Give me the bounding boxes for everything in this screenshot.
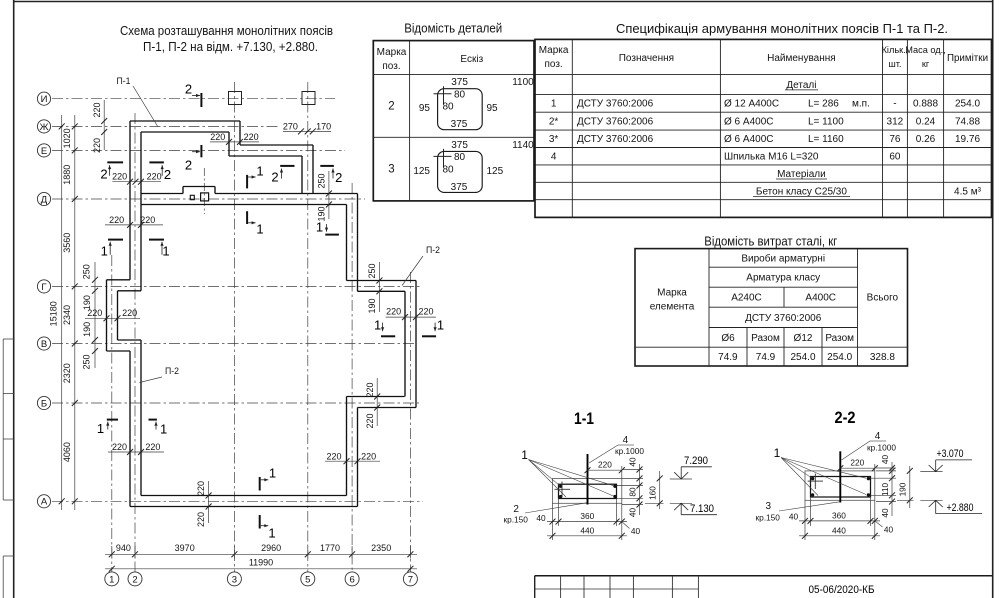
specification row 3* xyxy=(549,134,981,145)
section 1-1 cross mark xyxy=(555,482,571,498)
axis bubble 2 xyxy=(128,572,142,586)
belt П-2 band row А bottom line xyxy=(130,506,358,508)
svg-text:940: 940 xyxy=(116,543,131,553)
svg-text:1100: 1100 xyxy=(512,77,534,88)
svg-text:40: 40 xyxy=(627,457,637,467)
svg-text:1: 1 xyxy=(109,574,114,585)
svg-text:1: 1 xyxy=(256,164,263,179)
svg-text:05-06/2020-КБ: 05-06/2020-КБ xyxy=(809,584,875,596)
wall axis 1 outer line xyxy=(106,280,108,351)
svg-text:4.5 м³: 4.5 м³ xyxy=(954,186,982,197)
svg-text:ДСТУ 3760:2006: ДСТУ 3760:2006 xyxy=(577,99,654,110)
svg-text:5: 5 xyxy=(305,574,310,585)
svg-text:Всього: Всього xyxy=(867,293,899,304)
svg-text:190: 190 xyxy=(82,322,92,337)
svg-text:Ø12: Ø12 xyxy=(794,333,813,344)
belt band row В step bottom line xyxy=(107,350,131,352)
svg-text:220: 220 xyxy=(365,413,375,428)
svg-text:Маса од.,: Маса од., xyxy=(905,45,946,55)
svg-text:250: 250 xyxy=(82,354,92,369)
svg-text:4: 4 xyxy=(623,435,629,446)
svg-text:П-1: П-1 xyxy=(117,76,131,86)
svg-text:190: 190 xyxy=(367,298,377,313)
section mark 1 at cut x247 lower xyxy=(247,211,264,236)
svg-text:2350: 2350 xyxy=(371,543,391,553)
svg-text:6: 6 xyxy=(349,574,354,585)
svg-text:7.290: 7.290 xyxy=(684,455,708,467)
svg-text:+2.880: +2.880 xyxy=(947,502,974,514)
axis line 7 vertical dash-dot xyxy=(409,272,411,572)
small anchor square in opening on row Д xyxy=(190,195,194,199)
svg-text:0.888: 0.888 xyxy=(913,99,938,110)
svg-text:170: 170 xyxy=(316,121,331,131)
dim 220 220 on axis 2 wall below Д xyxy=(105,215,163,228)
svg-text:4: 4 xyxy=(551,152,557,163)
svg-text:250: 250 xyxy=(316,173,326,188)
specification row 1 xyxy=(551,99,981,110)
specification table grid xyxy=(535,39,992,217)
svg-text:Кільк.,: Кільк., xyxy=(882,45,909,55)
svg-text:кр.1000: кр.1000 xyxy=(867,443,896,453)
svg-text:м.п.: м.п. xyxy=(852,99,870,110)
section 1-1 stud M16 vertical bar xyxy=(587,454,589,505)
steel table grid xyxy=(635,249,908,366)
axis line 5 vertical dash-dot xyxy=(307,82,309,572)
svg-text:Г: Г xyxy=(41,282,46,293)
svg-text:250: 250 xyxy=(82,264,92,279)
svg-text:80: 80 xyxy=(442,164,454,175)
svg-text:15180: 15180 xyxy=(49,301,59,326)
section 1-1 right dim chain 40 80 40 xyxy=(617,457,643,517)
section 1-1 elevation 7.290 xyxy=(670,455,712,479)
belt band row Б step top line xyxy=(347,396,405,398)
wall step axis 3 left line xyxy=(228,132,230,156)
section 1-1 dim 220 top xyxy=(585,459,625,478)
details table row mark 3 xyxy=(388,164,394,176)
dimension chain left segments 1020 1880 3560 2340 2320 4060 xyxy=(62,115,78,510)
svg-text:L= 286: L= 286 xyxy=(808,99,839,110)
section mark 1 above row А band xyxy=(260,466,276,491)
svg-text:Специфікація армування моноліт: Специфікація армування монолітних поясів… xyxy=(616,21,948,36)
dim 220 220 on axis 1 wall xyxy=(85,308,140,321)
svg-text:Ескіз: Ескіз xyxy=(460,54,483,65)
dim 270 170 at axis 5 wall top xyxy=(283,121,331,134)
belt band row Г right step top line xyxy=(347,280,417,282)
svg-text:ДСТУ 3760:2006: ДСТУ 3760:2006 xyxy=(745,313,822,324)
svg-text:220: 220 xyxy=(122,308,137,318)
svg-text:220: 220 xyxy=(147,171,162,181)
svg-text:40: 40 xyxy=(627,508,637,518)
svg-text:поз.: поз. xyxy=(544,59,562,70)
details table sketch row 3 xyxy=(413,140,534,193)
svg-text:220: 220 xyxy=(361,451,376,461)
dim 250 190 vertical at row Д near axis 6 xyxy=(316,171,332,222)
svg-text:40: 40 xyxy=(880,508,890,518)
svg-text:7.130: 7.130 xyxy=(690,503,714,515)
belt band row Г right step bottom line xyxy=(358,290,406,292)
svg-text:А: А xyxy=(41,497,48,508)
dimension chain bottom total 11990 xyxy=(105,557,417,571)
dim 220 220 on axis 6 wall above row А xyxy=(325,451,380,464)
svg-text:1: 1 xyxy=(268,526,275,541)
svg-text:0.26: 0.26 xyxy=(916,134,936,145)
svg-text:поз.: поз. xyxy=(382,61,400,72)
belt band row Д bottom line xyxy=(141,204,347,206)
sheet frame left border xyxy=(13,0,15,598)
svg-text:2: 2 xyxy=(185,158,192,173)
svg-text:220: 220 xyxy=(210,132,225,142)
axis bubble Б xyxy=(37,396,50,409)
specification row Матеріали xyxy=(776,169,827,180)
svg-text:1: 1 xyxy=(162,244,169,259)
svg-text:375: 375 xyxy=(451,119,468,130)
svg-text:1: 1 xyxy=(551,99,557,110)
svg-text:74.9: 74.9 xyxy=(718,352,738,363)
axis line Е horizontal dash-dot xyxy=(52,149,345,151)
svg-text:80: 80 xyxy=(442,102,454,113)
axis line 1 vertical dash-dot xyxy=(111,255,113,572)
svg-text:220: 220 xyxy=(386,307,401,317)
svg-text:250: 250 xyxy=(367,263,377,278)
svg-text:Ø6: Ø6 xyxy=(721,333,735,344)
svg-text:L= 1160: L= 1160 xyxy=(808,134,844,145)
section 2-2 concrete outline xyxy=(805,471,875,500)
section 1-1 reinforcement frame xyxy=(559,484,617,498)
wall step axis 3 right line xyxy=(239,121,241,145)
section mark 1 pair left wall row between Д Г right xyxy=(149,240,170,259)
wall axis 2 outer line upper xyxy=(129,121,131,280)
details table header Ескіз xyxy=(460,54,483,65)
svg-text:74.88: 74.88 xyxy=(955,117,980,128)
left margin attribute boxes xyxy=(3,339,14,598)
svg-text:220: 220 xyxy=(112,442,127,452)
svg-text:440: 440 xyxy=(580,525,594,535)
svg-text:254.0: 254.0 xyxy=(955,99,980,110)
svg-text:2*: 2* xyxy=(549,117,559,128)
section mark 1 at cut x247 upper xyxy=(247,164,264,189)
section mark 2 right of axis 2 wall xyxy=(149,162,171,181)
svg-text:360: 360 xyxy=(832,510,846,520)
section mark 1 lower left wall right xyxy=(149,420,168,437)
svg-text:ДСТУ 3760:2006: ДСТУ 3760:2006 xyxy=(577,117,654,128)
title block stamp xyxy=(535,576,993,598)
section 1-1 bottom dims 40 360 440 xyxy=(536,499,640,541)
svg-text:-: - xyxy=(893,99,896,110)
leader label П-1 xyxy=(117,76,159,127)
svg-text:1: 1 xyxy=(256,222,263,237)
svg-text:П-1, П-2 на відм. +7.130, +2.8: П-1, П-2 на відм. +7.130, +2.880. xyxy=(143,39,318,54)
svg-text:1: 1 xyxy=(774,446,781,460)
belt band row Б step bottom line xyxy=(358,407,417,409)
axis bubble 6 xyxy=(345,572,359,586)
svg-text:Ø 12 А400С: Ø 12 А400С xyxy=(724,99,779,110)
svg-text:кр.1000: кр.1000 xyxy=(615,446,644,456)
svg-text:1-1: 1-1 xyxy=(574,410,594,428)
svg-text:1020: 1020 xyxy=(62,128,72,148)
svg-text:74.9: 74.9 xyxy=(756,352,776,363)
axis bubble В xyxy=(37,337,50,350)
svg-text:4: 4 xyxy=(875,431,881,442)
wall axis 5 right line xyxy=(312,145,314,194)
section 1-1 label 2 кр.150 xyxy=(503,503,586,525)
wall axis 5 left line xyxy=(301,156,303,194)
svg-text:+3.070: +3.070 xyxy=(937,448,964,460)
svg-text:1880: 1880 xyxy=(62,165,72,185)
svg-text:Е: Е xyxy=(41,146,47,157)
svg-text:Шпилька М16 L=320: Шпилька М16 L=320 xyxy=(724,152,819,163)
section mark 2 right of axis 5 wall xyxy=(320,166,342,185)
axis line Г horizontal dash-dot xyxy=(52,285,421,287)
axis bubble 3 xyxy=(227,572,241,586)
svg-text:Д: Д xyxy=(41,194,48,205)
details table row mark 2 xyxy=(388,101,394,113)
svg-text:L= 1100: L= 1100 xyxy=(808,117,844,128)
svg-text:190: 190 xyxy=(898,482,908,496)
svg-text:Схема розташування монолітних: Схема розташування монолітних поясів xyxy=(120,23,333,38)
wall axis 1 inner line xyxy=(117,291,119,340)
svg-text:ДСТУ 3760:2006: ДСТУ 3760:2006 xyxy=(577,134,654,145)
svg-text:1: 1 xyxy=(437,318,444,333)
svg-text:220: 220 xyxy=(112,171,127,181)
section mark 2 lower at cut x201 xyxy=(185,145,202,173)
specification row 4 Шпилька xyxy=(551,152,901,163)
section 2-2 reinforcement frame xyxy=(811,477,871,498)
svg-text:19.76: 19.76 xyxy=(955,134,980,145)
section mark 2 top at cut x201 xyxy=(185,82,202,108)
svg-text:кг: кг xyxy=(922,59,930,69)
wall axis 6 upper left line xyxy=(346,205,348,281)
svg-text:2: 2 xyxy=(185,82,192,97)
section 1-1 rebar dots xyxy=(559,485,617,499)
svg-text:3560: 3560 xyxy=(62,233,72,253)
svg-text:Відомість деталей: Відомість деталей xyxy=(404,20,502,35)
svg-text:1: 1 xyxy=(160,422,167,437)
svg-text:220: 220 xyxy=(196,481,206,496)
svg-text:160: 160 xyxy=(647,486,657,500)
axis bubble А xyxy=(37,495,50,508)
svg-text:80: 80 xyxy=(454,152,466,163)
svg-text:3: 3 xyxy=(232,574,237,585)
svg-text:220: 220 xyxy=(418,307,433,317)
open square element on row Д xyxy=(201,193,209,201)
svg-text:110: 110 xyxy=(880,483,890,497)
svg-text:328.8: 328.8 xyxy=(870,352,895,363)
svg-text:3*: 3* xyxy=(549,134,559,145)
dim 250 190 190 250 vertical at rows Г В left steps xyxy=(82,262,98,370)
section 2-2 bottom dims 40 360 440 xyxy=(789,497,894,540)
svg-text:2: 2 xyxy=(132,574,137,585)
axis line Д horizontal dash-dot xyxy=(52,198,365,200)
dim 220 220 at axis 3 step xyxy=(210,132,259,145)
section mark 2 left of axis 5 wall xyxy=(271,166,294,185)
wall axis 2 inner line lower xyxy=(140,340,142,496)
svg-text:40: 40 xyxy=(536,513,546,523)
svg-text:375: 375 xyxy=(451,77,468,88)
svg-text:2: 2 xyxy=(271,170,278,185)
svg-text:11990: 11990 xyxy=(249,557,273,567)
svg-text:220: 220 xyxy=(244,132,259,142)
svg-text:2: 2 xyxy=(335,170,342,185)
svg-text:2: 2 xyxy=(388,101,394,113)
svg-text:40: 40 xyxy=(789,511,799,521)
belt П-1 band row Ж outer line xyxy=(130,120,240,122)
svg-text:кр.150: кр.150 xyxy=(503,515,528,525)
svg-text:60: 60 xyxy=(889,152,901,163)
section mark 1 below row А band xyxy=(260,515,276,541)
section mark 1 below Д band at axis 5 xyxy=(316,220,339,235)
svg-text:4060: 4060 xyxy=(62,442,72,462)
svg-text:7: 7 xyxy=(408,574,413,585)
svg-text:254.0: 254.0 xyxy=(827,352,852,363)
dimension chain bottom segments 940 3970 2960 1770 2350 xyxy=(105,543,417,559)
svg-text:220: 220 xyxy=(365,382,375,397)
svg-text:220: 220 xyxy=(92,138,102,153)
svg-text:2: 2 xyxy=(513,504,519,515)
section 1-1 label 4 кр.1000 xyxy=(589,435,644,463)
svg-text:2: 2 xyxy=(164,167,171,182)
dim 220 220 on axis 2 wall upper xyxy=(112,171,161,184)
axis line 3 vertical dash-dot xyxy=(233,82,235,572)
leader label П-2 left xyxy=(140,366,180,383)
section 2-2 label 3 кр.150 xyxy=(755,501,839,523)
section 2-2 stud M16 vertical bar xyxy=(839,451,841,502)
belt band row Е top line xyxy=(240,144,313,146)
svg-text:Арматура класу: Арматура класу xyxy=(746,273,820,284)
dimension chain left 15180 total xyxy=(49,115,65,510)
svg-text:1770: 1770 xyxy=(320,543,340,553)
wall axis 7 right line xyxy=(415,281,417,408)
axis line В horizontal dash-dot xyxy=(52,343,417,345)
axis bubble Ж xyxy=(37,120,50,133)
short axis dash-dot through opening on row Д xyxy=(203,168,205,214)
svg-text:80: 80 xyxy=(627,487,637,497)
svg-text:440: 440 xyxy=(832,525,846,535)
section 1-1 concrete outline xyxy=(553,478,622,503)
section mark 1 lower left wall left xyxy=(97,420,118,436)
axis bubble Д xyxy=(37,192,50,205)
belt band row Г left step bottom line xyxy=(118,290,142,292)
svg-text:1: 1 xyxy=(521,448,528,462)
svg-text:1: 1 xyxy=(97,421,104,436)
svg-text:95: 95 xyxy=(487,103,499,114)
section 1-1 elevation 7.130 xyxy=(670,503,717,515)
axis line 2 vertical dash-dot xyxy=(134,113,136,572)
details table header Марка поз xyxy=(377,47,407,72)
axis bubble 5 xyxy=(301,572,315,586)
svg-text:Примітки: Примітки xyxy=(947,53,988,64)
steel table texts xyxy=(650,252,899,363)
axis bubble И xyxy=(37,92,50,105)
svg-text:360: 360 xyxy=(580,511,594,521)
svg-text:А240С: А240С xyxy=(731,293,762,304)
axis line Ж horizontal dash-dot xyxy=(52,125,280,127)
axis line И horizontal dash-dot xyxy=(52,98,335,100)
svg-text:Ø 6 А400С: Ø 6 А400С xyxy=(724,117,773,128)
svg-text:2320: 2320 xyxy=(62,363,72,383)
svg-text:Деталі: Деталі xyxy=(786,80,816,91)
svg-text:95: 95 xyxy=(419,103,431,114)
svg-text:2-2: 2-2 xyxy=(835,409,856,427)
svg-text:Ж: Ж xyxy=(40,122,49,133)
svg-text:80: 80 xyxy=(454,90,466,101)
leader label П-2 right xyxy=(402,245,440,286)
svg-text:1: 1 xyxy=(374,318,381,333)
svg-text:125: 125 xyxy=(413,166,430,177)
wall axis 2 inner line upper xyxy=(140,132,142,291)
dim 220 220 vertical at row Б step xyxy=(365,378,380,429)
belt band row В step top line xyxy=(118,339,142,341)
belt band row Г left step top line xyxy=(107,279,131,281)
specification row 2* xyxy=(549,117,981,128)
svg-text:0.24: 0.24 xyxy=(916,117,936,128)
specification row Деталі xyxy=(785,80,818,91)
axis bubble 1 xyxy=(105,572,119,586)
svg-text:И: И xyxy=(41,94,48,105)
section mark 1 pair left wall row between Д Г left xyxy=(101,240,123,259)
sheet frame top border xyxy=(14,1,993,3)
svg-text:220: 220 xyxy=(326,451,341,461)
svg-text:Бетон класу С25/30: Бетон класу С25/30 xyxy=(756,186,847,197)
svg-text:Б: Б xyxy=(41,398,47,409)
section 2-2 right dim chain 40 110 40 xyxy=(871,455,896,518)
svg-text:40: 40 xyxy=(884,525,894,535)
section 2-2 rebar dots xyxy=(811,477,870,497)
column square on axis 3 row И xyxy=(229,92,242,105)
section 1-1 dim 160 xyxy=(645,471,664,509)
section 1-1 rebar leader fan label 1 xyxy=(521,448,614,497)
svg-text:254.0: 254.0 xyxy=(790,352,815,363)
svg-text:312: 312 xyxy=(887,117,904,128)
svg-text:1140: 1140 xyxy=(512,140,534,151)
column square on axis 5 row И xyxy=(302,92,315,105)
belt band row Д top line with opening notch xyxy=(141,187,358,194)
svg-text:А400С: А400С xyxy=(805,293,836,304)
section 2-2 rebar leader fan label 1 xyxy=(774,446,866,496)
svg-text:П-2: П-2 xyxy=(165,366,179,376)
svg-text:220: 220 xyxy=(92,102,102,117)
svg-text:Марка: Марка xyxy=(657,287,687,298)
svg-text:1: 1 xyxy=(269,466,276,481)
svg-text:Разом: Разом xyxy=(751,333,780,344)
svg-text:125: 125 xyxy=(487,166,504,177)
svg-text:Матеріали: Матеріали xyxy=(777,169,826,180)
wall axis 6 lower right line xyxy=(357,408,359,507)
svg-text:Ø 6 А400С: Ø 6 А400С xyxy=(724,134,773,145)
section 2-2 dim 220 top xyxy=(837,457,877,471)
svg-text:Відомість витрат сталі, кг: Відомість витрат сталі, кг xyxy=(704,234,837,249)
svg-text:76: 76 xyxy=(889,134,901,145)
svg-text:Позначення: Позначення xyxy=(619,53,674,64)
svg-text:шт.: шт. xyxy=(888,59,901,69)
svg-text:Марка: Марка xyxy=(377,47,407,58)
section 2-2 dim 190 xyxy=(897,466,914,508)
dim 220 220 on axis 7 wall xyxy=(386,307,436,321)
belt band row Е bottom line xyxy=(229,155,302,157)
dim 250 190 vertical at row Г right step xyxy=(367,262,382,314)
svg-text:2960: 2960 xyxy=(261,543,281,553)
svg-text:3: 3 xyxy=(766,501,772,512)
belt П-1 band row Ж inner line xyxy=(141,131,229,133)
svg-text:220: 220 xyxy=(145,442,160,452)
svg-text:220: 220 xyxy=(598,459,612,469)
specification row Бетон класу xyxy=(753,186,982,197)
svg-text:190: 190 xyxy=(82,295,92,310)
svg-text:кр.150: кр.150 xyxy=(755,513,780,523)
axis bubble Г xyxy=(37,280,50,293)
section 2-2 label 4 кр.1000 xyxy=(842,431,897,460)
wall axis 7 left line xyxy=(404,291,406,396)
svg-text:3970: 3970 xyxy=(175,543,195,553)
